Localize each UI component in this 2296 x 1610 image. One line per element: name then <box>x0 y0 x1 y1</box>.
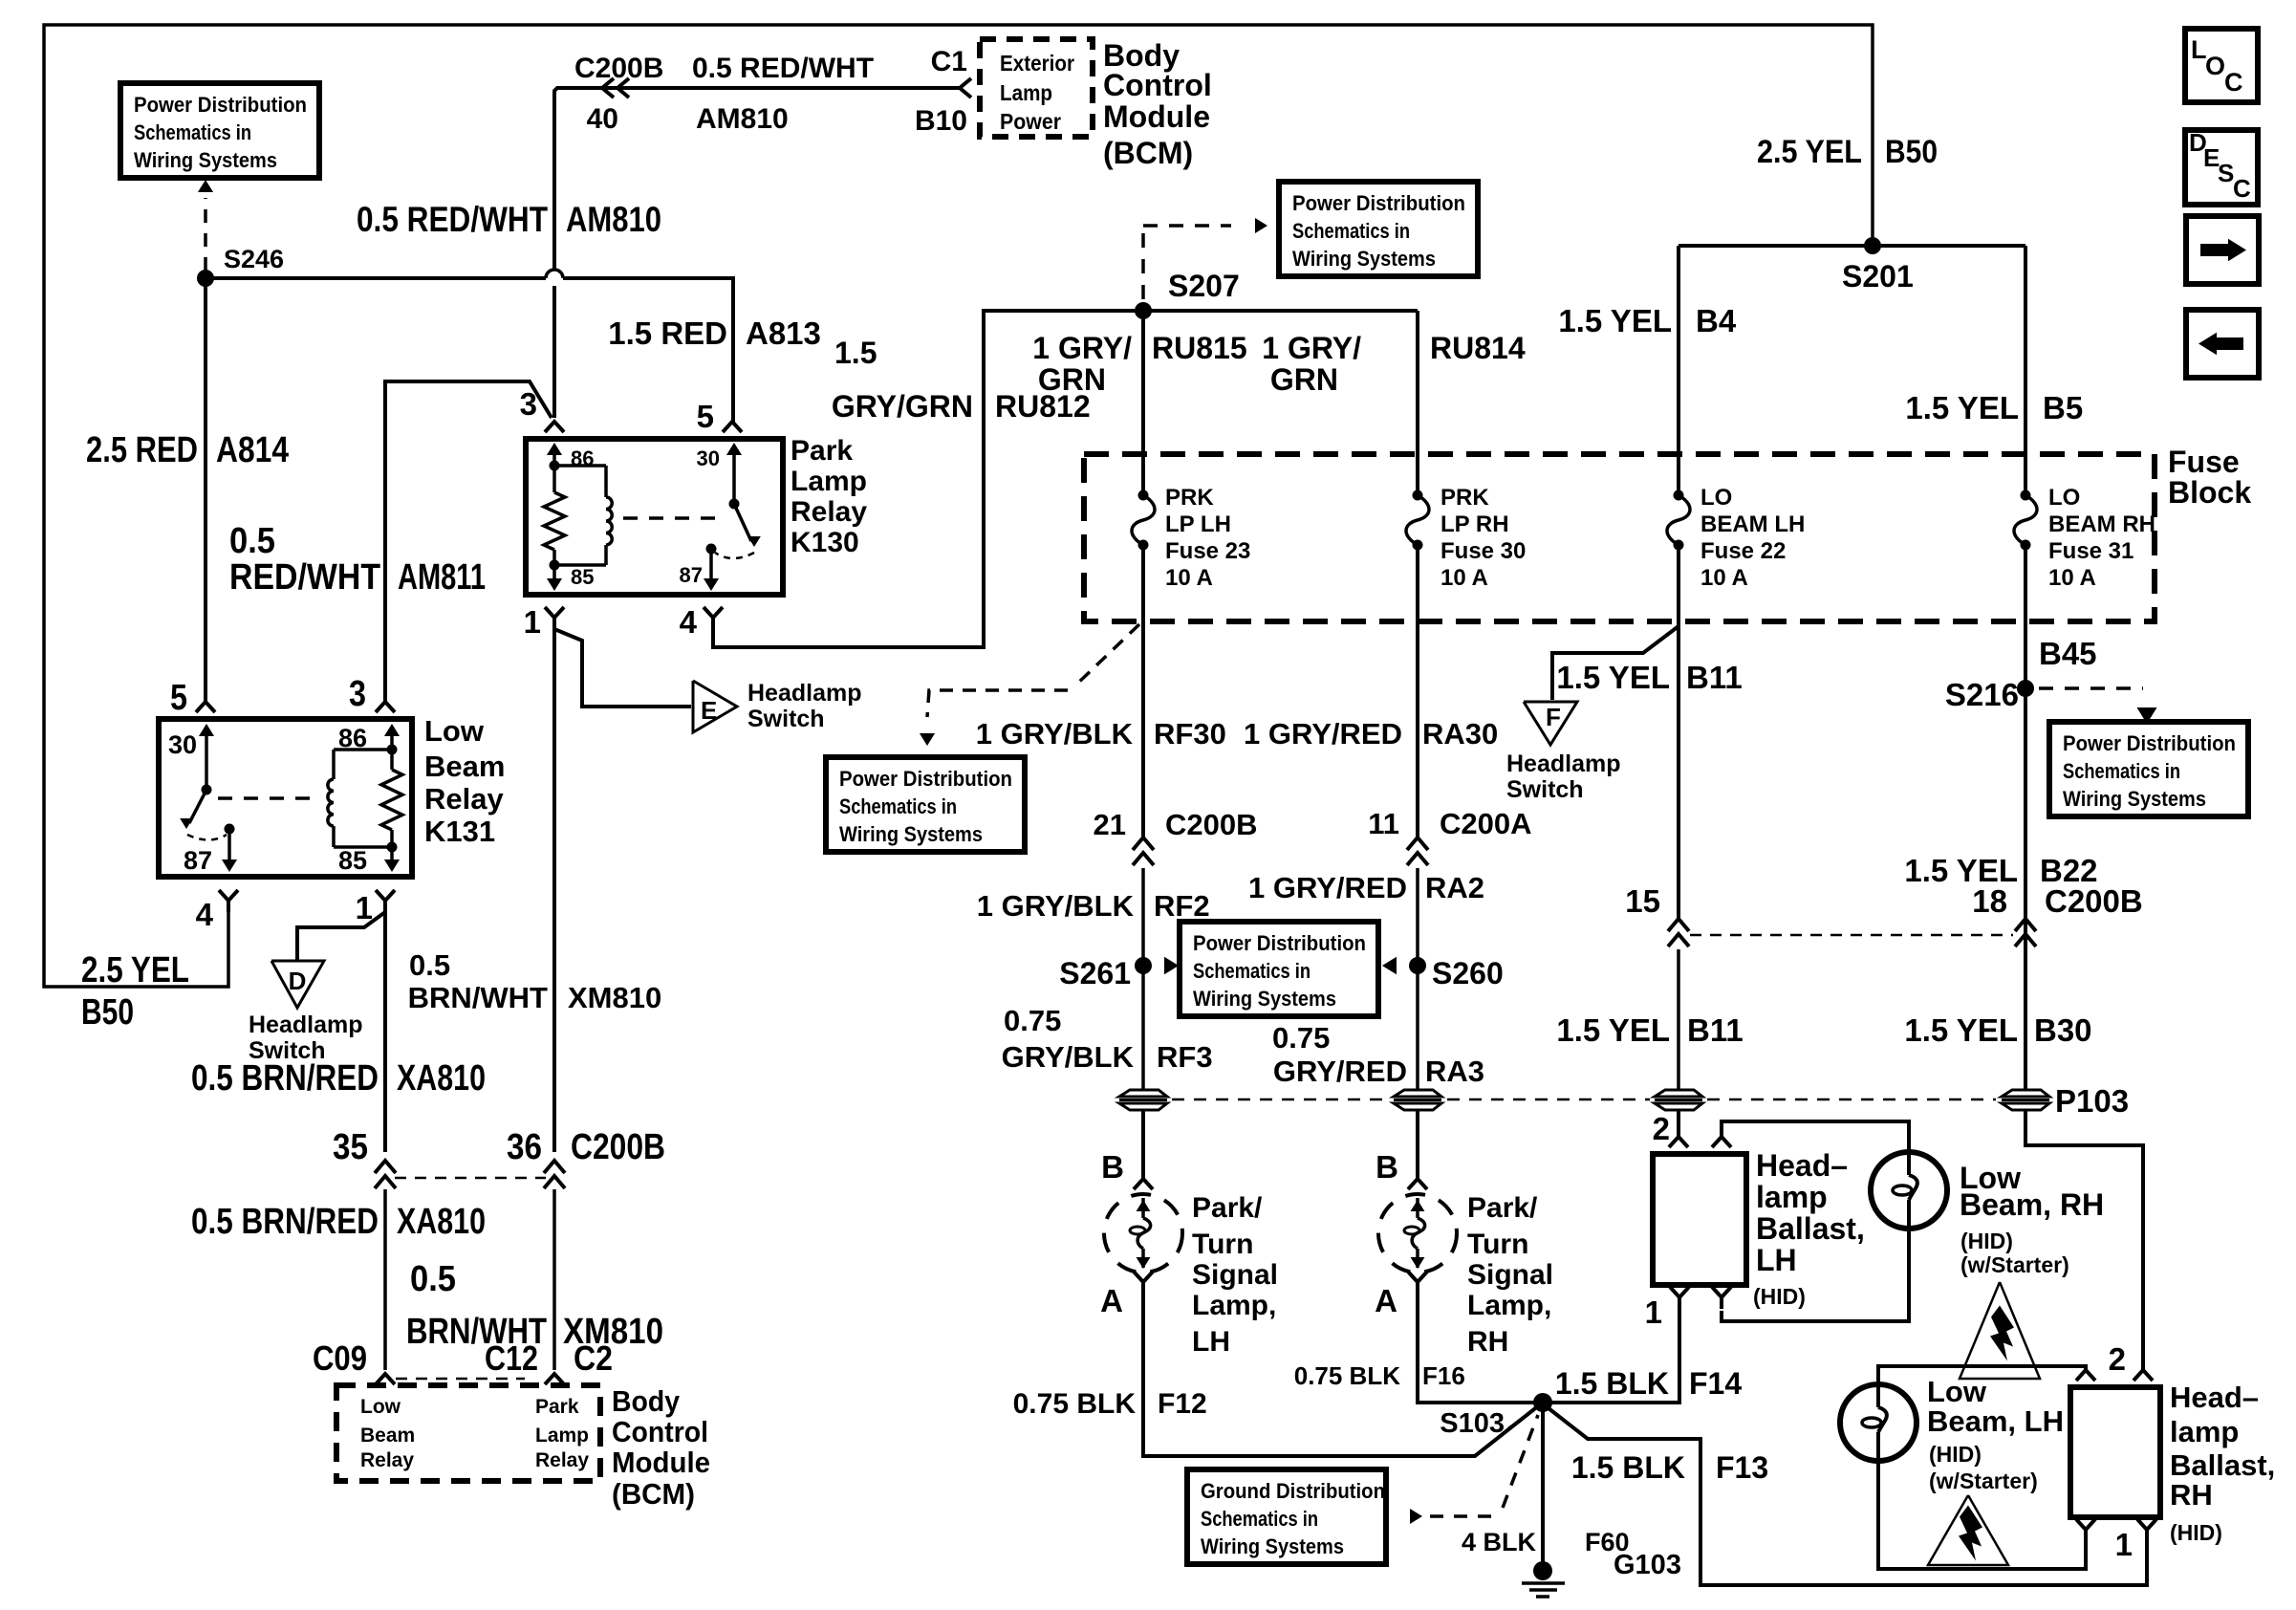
box Exterior Lamp Power (BCM) <box>980 39 1093 137</box>
wire to D headlamp switch <box>297 912 385 961</box>
svg-text:Beam, LH: Beam, LH <box>1927 1404 2064 1438</box>
wire RU814 down to fuse 30 <box>1416 311 1419 495</box>
K131 pin 87 arrow <box>227 834 231 868</box>
svg-text:D: D <box>289 967 307 995</box>
svg-text:1: 1 <box>2115 1527 2133 1562</box>
svg-text:Ballast,: Ballast, <box>1756 1211 1865 1246</box>
node S207 <box>1135 302 1152 319</box>
svg-text:XA810: XA810 <box>397 1202 486 1242</box>
svg-text:O: O <box>2205 52 2225 80</box>
wire B4 above fuse 22 <box>1677 246 1680 495</box>
svg-text:F16: F16 <box>1422 1361 1465 1390</box>
svg-text:RU814: RU814 <box>1430 331 1526 365</box>
K130 coil-switch dashed link <box>623 516 726 520</box>
dashed bulkhead plane <box>1172 1099 1388 1101</box>
wire S201 horizontal <box>1679 244 2025 248</box>
svg-text:PRK: PRK <box>1440 485 1489 511</box>
svg-text:Control: Control <box>1103 68 1212 102</box>
wire S246 horizontal with hop <box>206 276 546 280</box>
svg-text:A: A <box>1100 1283 1123 1318</box>
svg-text:(w/Starter): (w/Starter) <box>1960 1252 2069 1277</box>
svg-text:Turn: Turn <box>1192 1229 1253 1260</box>
ballast RH pin 2 terminal <box>2134 1370 2153 1381</box>
E triangle <box>693 681 737 732</box>
svg-text:2: 2 <box>1653 1111 1670 1146</box>
svg-text:Power: Power <box>1000 109 1061 134</box>
svg-text:Beam, RH: Beam, RH <box>1960 1187 2104 1222</box>
svg-text:B30: B30 <box>2034 1012 2092 1048</box>
svg-text:Module: Module <box>1103 99 1210 134</box>
svg-text:(w/Starter): (w/Starter) <box>1929 1469 2038 1493</box>
svg-text:0.75 BLK: 0.75 BLK <box>1013 1388 1137 1420</box>
svg-text:AM811: AM811 <box>398 557 486 598</box>
inline connector RF3 pass-through <box>1119 1090 1167 1097</box>
connector 35 (C200B) <box>375 1161 396 1173</box>
svg-text:1.5 YEL: 1.5 YEL <box>1904 853 2018 888</box>
svg-text:C1: C1 <box>931 46 967 77</box>
svg-text:Fuse 31: Fuse 31 <box>2048 538 2134 564</box>
ballast RH pin 1 terminal <box>2137 1519 2156 1530</box>
svg-text:5: 5 <box>170 678 187 718</box>
inline connector C200B 40 <box>602 78 614 98</box>
svg-text:10 A: 10 A <box>1165 565 1213 591</box>
svg-text:A814: A814 <box>216 430 289 470</box>
svg-text:BEAM LH: BEAM LH <box>1700 511 1805 537</box>
relay K130 box <box>526 439 783 595</box>
svg-text:1.5 YEL: 1.5 YEL <box>1556 660 1670 695</box>
svg-text:RF3: RF3 <box>1157 1040 1213 1074</box>
svg-text:Fuse 23: Fuse 23 <box>1165 538 1250 564</box>
svg-text:Park/: Park/ <box>1192 1192 1263 1224</box>
K130 pin 4 terminal <box>704 607 723 618</box>
svg-text:lamp: lamp <box>1756 1180 1828 1214</box>
K131 coil <box>334 748 392 751</box>
svg-text:C200B: C200B <box>574 53 663 84</box>
node S103 <box>1533 1393 1552 1412</box>
K131 pin 5 terminal <box>196 702 215 712</box>
svg-text:Schematics in: Schematics in <box>1201 1507 1318 1531</box>
ballast RH top-left terminal <box>2076 1370 2095 1381</box>
box Power Distribution (middle) <box>826 757 1025 852</box>
warning triangle (LH) <box>1928 1495 2008 1565</box>
ballast LH pin 1 terminal <box>1670 1287 1689 1297</box>
box Power Distribution (S261/S260) <box>1180 922 1378 1016</box>
K130 switch arm <box>734 504 751 541</box>
K130 pin 3 terminal <box>545 422 564 432</box>
wire to E headlamp switch <box>554 629 691 707</box>
svg-text:LO: LO <box>1700 485 1732 511</box>
svg-text:P103: P103 <box>2055 1083 2129 1119</box>
dashed connector plane 35-36 <box>395 1177 546 1180</box>
wire to park/turn LH pin B <box>1141 1109 1145 1179</box>
svg-text:Relay: Relay <box>791 496 867 528</box>
box Ground Distribution <box>1187 1469 1386 1564</box>
D triangle <box>271 961 324 1008</box>
svg-text:C: C <box>2224 68 2243 97</box>
connector 21 C200B <box>1133 838 1154 850</box>
svg-text:LH: LH <box>1756 1243 1797 1277</box>
svg-text:S207: S207 <box>1168 269 1240 303</box>
svg-text:B10: B10 <box>915 105 967 137</box>
svg-text:E: E <box>701 696 717 725</box>
svg-text:2.5 YEL: 2.5 YEL <box>1757 134 1862 170</box>
svg-text:RU815: RU815 <box>1152 331 1247 365</box>
svg-text:Turn: Turn <box>1467 1229 1528 1260</box>
svg-text:Ground Distribution: Ground Distribution <box>1201 1479 1385 1503</box>
svg-text:85: 85 <box>338 846 367 875</box>
svg-text:Relay: Relay <box>424 782 504 816</box>
svg-text:Signal: Signal <box>1467 1259 1553 1291</box>
svg-text:1.5 BLK: 1.5 BLK <box>1571 1450 1685 1485</box>
svg-text:AM810: AM810 <box>696 103 789 135</box>
legend box LOC <box>2185 29 2258 102</box>
node S246 <box>197 270 214 287</box>
svg-text:1 GRY/BLK: 1 GRY/BLK <box>977 889 1135 923</box>
svg-text:0.5 BRN/RED: 0.5 BRN/RED <box>191 1058 379 1099</box>
svg-text:(HID): (HID) <box>1753 1284 1806 1309</box>
svg-text:(HID): (HID) <box>1960 1229 2013 1253</box>
connector half at BCM <box>960 78 971 98</box>
svg-text:B11: B11 <box>1687 1012 1744 1048</box>
svg-text:Low: Low <box>360 1396 401 1418</box>
wire F12 LH lamp to S103 <box>1143 1294 1539 1456</box>
svg-text:1 GRY/: 1 GRY/ <box>1262 331 1361 365</box>
svg-text:(HID): (HID) <box>1929 1442 1982 1467</box>
svg-text:PRK: PRK <box>1165 485 1214 511</box>
svg-text:F13: F13 <box>1716 1450 1768 1485</box>
svg-text:K130: K130 <box>791 527 859 558</box>
wire 0.5 BRN/RED XA810 <box>383 912 387 1152</box>
node S216 <box>2017 680 2034 697</box>
ballast RH bottom-left terminal <box>2076 1519 2095 1530</box>
svg-text:K131: K131 <box>424 815 495 848</box>
svg-text:Module: Module <box>612 1446 710 1479</box>
svg-text:Headlamp: Headlamp <box>249 1012 362 1038</box>
legend box arrow left <box>2186 310 2259 378</box>
svg-text:Power Distribution: Power Distribution <box>134 93 307 117</box>
svg-text:LP RH: LP RH <box>1440 511 1509 537</box>
wire F13 S103 to ballast RH pin1 <box>1549 1408 2147 1585</box>
wire B45 fuse31 to P103 <box>2024 545 2027 1091</box>
svg-text:Lamp,: Lamp, <box>1467 1290 1551 1321</box>
svg-text:Power Distribution: Power Distribution <box>1193 931 1366 955</box>
svg-text:C12: C12 <box>485 1338 538 1378</box>
svg-text:B11: B11 <box>1686 660 1743 695</box>
svg-text:0.5 RED/WHT: 0.5 RED/WHT <box>357 200 548 239</box>
svg-text:1 GRY/BLK: 1 GRY/BLK <box>976 717 1134 751</box>
svg-text:Wiring Systems: Wiring Systems <box>2063 787 2206 811</box>
svg-text:1.5 YEL: 1.5 YEL <box>1905 390 2019 425</box>
svg-text:Lamp: Lamp <box>535 1425 589 1447</box>
K131 coil-switch dashed link <box>218 796 321 800</box>
svg-text:B: B <box>1101 1149 1124 1185</box>
K131 pin 1 terminal <box>376 890 395 901</box>
svg-text:LP LH: LP LH <box>1165 511 1231 537</box>
svg-text:Beam: Beam <box>360 1425 415 1447</box>
box Power Distribution (top left) <box>120 83 319 178</box>
svg-text:RA3: RA3 <box>1425 1055 1484 1088</box>
svg-text:1: 1 <box>356 890 373 925</box>
arrow S260 to box <box>1382 957 1397 975</box>
K131 pin 4 terminal <box>219 890 238 901</box>
svg-text:LO: LO <box>2048 485 2080 511</box>
K130 coil <box>554 464 606 468</box>
svg-text:Wiring Systems: Wiring Systems <box>839 822 983 846</box>
wire B5 above fuse 31 <box>2024 246 2027 495</box>
svg-text:RA2: RA2 <box>1425 871 1484 904</box>
svg-text:Exterior: Exterior <box>1000 51 1074 76</box>
svg-text:18: 18 <box>1972 883 2007 919</box>
svg-text:0.5: 0.5 <box>409 948 450 982</box>
svg-text:Lamp: Lamp <box>1000 80 1052 105</box>
svg-text:Head–: Head– <box>2170 1381 2259 1414</box>
node S260 <box>1409 957 1426 974</box>
fuse 30 (PRK LP RH) <box>1413 490 1423 501</box>
svg-text:Fuse: Fuse <box>2168 445 2240 479</box>
K130 pin 87 arrow <box>709 554 713 587</box>
K130 pin 86 arrow <box>552 446 556 466</box>
F triangle <box>1524 702 1577 745</box>
svg-text:F12: F12 <box>1158 1388 1207 1420</box>
svg-text:LH: LH <box>1192 1326 1230 1358</box>
svg-text:4: 4 <box>196 897 214 932</box>
box Headlamp Ballast RH <box>2070 1387 2160 1517</box>
svg-text:S261: S261 <box>1059 956 1131 990</box>
svg-text:Park/: Park/ <box>1467 1192 1538 1224</box>
svg-text:GRY/BLK: GRY/BLK <box>1002 1040 1135 1074</box>
svg-text:RF2: RF2 <box>1154 889 1210 923</box>
wire F16 RH lamp to S103 <box>1418 1294 1534 1403</box>
K131 switch dashed arc <box>187 835 227 840</box>
svg-text:XM810: XM810 <box>568 981 661 1014</box>
wire RA30 fuse30 down <box>1416 545 1419 837</box>
wire B11 branch to F switch <box>1552 626 1679 700</box>
svg-text:B: B <box>1375 1149 1398 1185</box>
K131 resistor <box>390 750 394 770</box>
K130 switch contact dot <box>706 544 717 555</box>
svg-text:Park: Park <box>791 435 853 467</box>
svg-text:Head–: Head– <box>1756 1148 1848 1183</box>
svg-text:BRN/WHT: BRN/WHT <box>408 981 548 1014</box>
wire F14 S103 to ballast LH pin1 <box>1550 1309 1679 1403</box>
svg-text:10 A: 10 A <box>2048 565 2096 591</box>
svg-text:S103: S103 <box>1440 1408 1505 1439</box>
svg-text:1.5 BLK: 1.5 BLK <box>1555 1366 1669 1401</box>
svg-text:Wiring Systems: Wiring Systems <box>1201 1534 1344 1558</box>
svg-text:S: S <box>2218 159 2234 187</box>
svg-text:GRN: GRN <box>1038 362 1106 397</box>
wire loop low beam LH <box>1878 1366 2086 1384</box>
dashed arrow S216 to Power Distribution box <box>2039 686 2143 690</box>
ballast LH pin 2 terminal <box>1669 1137 1688 1147</box>
svg-text:(BCM): (BCM) <box>612 1477 695 1511</box>
dashed connector plane 15-18 <box>1690 934 2013 937</box>
dashed arrow Ground Distribution to S103 <box>1410 1509 1422 1524</box>
svg-text:S246: S246 <box>224 245 284 273</box>
box Fuse Block (dashed) <box>1084 454 2155 621</box>
svg-text:G103: G103 <box>1614 1550 1681 1580</box>
svg-text:RA30: RA30 <box>1422 717 1498 751</box>
svg-text:40: 40 <box>587 103 618 135</box>
svg-text:11: 11 <box>1368 807 1399 840</box>
svg-text:Schematics in: Schematics in <box>134 120 251 144</box>
K130 pin 5 terminal <box>723 422 742 432</box>
svg-text:2.5 RED: 2.5 RED <box>86 430 198 470</box>
svg-text:B50: B50 <box>81 992 134 1033</box>
svg-text:Power Distribution: Power Distribution <box>2063 731 2236 755</box>
svg-text:21: 21 <box>1094 808 1126 841</box>
svg-text:Headlamp: Headlamp <box>747 680 861 707</box>
K131 pin 85 arrow <box>390 847 394 868</box>
svg-text:0.75: 0.75 <box>1004 1004 1061 1037</box>
K131 coil junction dots <box>387 745 398 755</box>
K131 pin 30 arrow <box>205 727 208 790</box>
park/turn LH pin B terminal <box>1134 1179 1153 1189</box>
K130 switch dashed arc <box>715 553 754 558</box>
wire B50 left/top loop <box>44 25 1873 987</box>
svg-text:1: 1 <box>1645 1295 1662 1330</box>
K130 pin 85 arrow <box>552 565 556 587</box>
connector 11 C200A <box>1407 838 1428 850</box>
svg-text:S260: S260 <box>1432 956 1504 990</box>
svg-text:RH: RH <box>1467 1326 1508 1358</box>
wire loop low beam RH <box>1722 1121 1909 1152</box>
wire 0.5 RED/WHT AM811 <box>385 381 552 702</box>
dashed arrow fuse block to Power Distribution box <box>1075 624 1139 685</box>
svg-text:C: C <box>2233 174 2251 203</box>
svg-text:B50: B50 <box>1885 134 1938 170</box>
K131 switch pivot <box>202 785 212 795</box>
svg-text:F: F <box>1546 703 1561 731</box>
svg-text:5: 5 <box>697 399 714 434</box>
svg-text:30: 30 <box>168 730 197 759</box>
park/turn LH pin A terminal <box>1134 1272 1153 1282</box>
wire 0.5 BRN/WHT XM810 <box>552 629 556 1152</box>
box Power Distribution (top middle) <box>1279 182 1478 276</box>
svg-text:Schematics in: Schematics in <box>1292 219 1410 243</box>
svg-text:B22: B22 <box>2040 853 2098 888</box>
box Headlamp Ballast LH <box>1653 1154 1746 1285</box>
wire RF30 fuse23 to lamp LH <box>1141 545 1145 837</box>
svg-text:RED/WHT: RED/WHT <box>229 557 380 598</box>
svg-text:0.5 BRN/RED: 0.5 BRN/RED <box>191 1202 379 1242</box>
svg-text:F14: F14 <box>1689 1366 1742 1401</box>
legend box arrow right <box>2186 216 2259 284</box>
K131 switch arm <box>189 790 206 823</box>
wire RU815 down to fuse 23 <box>1141 311 1145 495</box>
svg-text:1 GRY/RED: 1 GRY/RED <box>1248 871 1407 904</box>
svg-text:0.75: 0.75 <box>1272 1021 1330 1055</box>
inline connector RA3 pass-through <box>1394 1090 1441 1097</box>
svg-text:Control: Control <box>612 1415 708 1448</box>
K131 pin 86 arrow <box>390 727 394 750</box>
warning triangle (RH) <box>1960 1282 2040 1379</box>
K130 coil junction dots <box>550 461 560 471</box>
fuse 31 (LO BEAM RH) <box>2021 490 2031 501</box>
wire 1.5 GRY/GRN RU812 <box>713 311 1143 647</box>
svg-text:10 A: 10 A <box>1700 565 1748 591</box>
svg-text:1.5 RED: 1.5 RED <box>608 315 727 351</box>
svg-text:Schematics in: Schematics in <box>2063 759 2180 783</box>
svg-text:Schematics in: Schematics in <box>839 794 957 818</box>
svg-text:RH: RH <box>2170 1478 2213 1512</box>
svg-text:C200B: C200B <box>571 1127 665 1167</box>
svg-text:(BCM): (BCM) <box>1103 136 1193 170</box>
wire 2.5 RED A814 <box>204 278 207 702</box>
fuse 22 (LO BEAM LH) <box>1674 490 1684 501</box>
svg-text:2.5 YEL: 2.5 YEL <box>81 950 189 990</box>
svg-text:Schematics in: Schematics in <box>1193 959 1310 983</box>
svg-text:C2: C2 <box>574 1338 613 1378</box>
BCM C12 terminal <box>545 1374 564 1384</box>
svg-text:3: 3 <box>520 386 537 422</box>
svg-text:GRY/GRN: GRY/GRN <box>832 389 973 424</box>
svg-text:Lamp,: Lamp, <box>1192 1290 1276 1321</box>
svg-text:4: 4 <box>680 604 698 640</box>
node S261 <box>1135 957 1152 974</box>
svg-text:35: 35 <box>333 1127 368 1167</box>
svg-text:0.5: 0.5 <box>229 521 275 561</box>
svg-text:87: 87 <box>680 563 703 587</box>
svg-text:3: 3 <box>349 674 366 714</box>
svg-text:Headlamp: Headlamp <box>1506 751 1620 777</box>
dashed arrow S207 to Power Distribution box <box>1141 229 1145 299</box>
svg-text:C200A: C200A <box>1440 807 1532 840</box>
svg-text:1 GRY/: 1 GRY/ <box>1032 331 1132 365</box>
lamp Low Beam RH <box>1871 1152 1947 1229</box>
svg-text:RF30: RF30 <box>1154 717 1226 751</box>
wire 0.5 RED/WHT AM810 top <box>554 88 960 269</box>
ballast LH top-right terminal <box>1712 1137 1731 1147</box>
svg-text:Fuse 30: Fuse 30 <box>1440 538 1526 564</box>
svg-text:Relay: Relay <box>535 1449 589 1471</box>
connector 18 C200B <box>2015 919 2036 931</box>
svg-text:GRY/RED: GRY/RED <box>1273 1055 1407 1088</box>
svg-text:B5: B5 <box>2043 390 2083 425</box>
BCM C09 terminal <box>376 1374 395 1384</box>
svg-text:0.5 RED/WHT: 0.5 RED/WHT <box>692 53 874 84</box>
svg-text:1.5: 1.5 <box>834 336 877 370</box>
svg-text:C09: C09 <box>313 1338 367 1378</box>
svg-text:A813: A813 <box>746 315 821 351</box>
svg-text:87: 87 <box>184 846 212 875</box>
K130 pin 30 arrow <box>732 446 736 504</box>
svg-text:Wiring Systems: Wiring Systems <box>1193 987 1336 1011</box>
arrow S261 to box <box>1164 957 1179 975</box>
legend box DESC <box>2185 130 2258 205</box>
svg-text:15: 15 <box>1625 883 1660 919</box>
box Body Control Module (bottom) <box>336 1385 600 1481</box>
svg-text:0.75 BLK: 0.75 BLK <box>1294 1361 1400 1390</box>
svg-text:GRN: GRN <box>1270 362 1338 397</box>
svg-text:BEAM RH: BEAM RH <box>2048 511 2155 537</box>
fuse 23 (PRK LP LH) <box>1138 490 1149 501</box>
svg-text:30: 30 <box>697 446 720 470</box>
svg-text:Lamp: Lamp <box>791 466 867 497</box>
svg-text:C200B: C200B <box>1165 808 1258 841</box>
svg-text:Relay: Relay <box>360 1449 414 1471</box>
lamp Park/Turn Signal RH <box>1378 1194 1457 1273</box>
svg-text:Switch: Switch <box>1506 776 1584 803</box>
svg-text:Signal: Signal <box>1192 1259 1278 1291</box>
svg-text:Ballast,: Ballast, <box>2170 1448 2275 1482</box>
svg-text:0.5: 0.5 <box>410 1259 456 1299</box>
svg-text:S201: S201 <box>1842 259 1914 294</box>
svg-text:36: 36 <box>507 1127 542 1167</box>
park/turn RH pin A terminal <box>1408 1272 1427 1282</box>
svg-text:B45: B45 <box>2039 636 2097 671</box>
svg-text:AM810: AM810 <box>566 200 661 239</box>
